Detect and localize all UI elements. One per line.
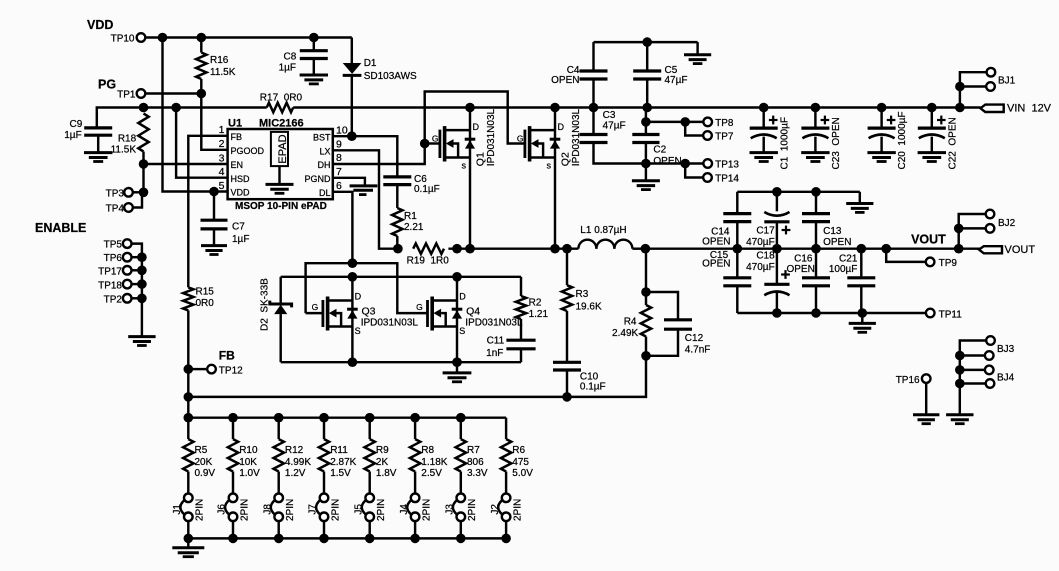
svg-text:OPEN: OPEN bbox=[823, 237, 851, 248]
svg-text:5.0V: 5.0V bbox=[512, 468, 533, 479]
junction drain line / Q4 drain bbox=[452, 272, 462, 282]
svg-text:EPAD: EPAD bbox=[277, 134, 289, 163]
svg-text:6: 6 bbox=[336, 180, 342, 192]
test point TP14 bbox=[685, 164, 739, 185]
junction bottom rail / J2 bbox=[501, 534, 511, 544]
wire to TP8 bbox=[646, 121, 704, 123]
reference label Q4 bbox=[466, 305, 480, 317]
wire Q3 source to ground line bbox=[351, 327, 353, 363]
connector J7 2PIN bbox=[308, 494, 342, 539]
value label C18 470uF bbox=[746, 250, 775, 273]
junction top rail / R11 bbox=[319, 413, 329, 423]
ground under C9 bbox=[84, 153, 112, 162]
svg-text:R6: R6 bbox=[512, 445, 525, 456]
wire EN to TP3 bbox=[142, 164, 144, 192]
junction bottom rail / J5 bbox=[365, 534, 375, 544]
wire LX from pin 9 bbox=[333, 150, 398, 248]
wire DH gate drive bbox=[333, 92, 525, 165]
junction ground line / Q3 source bbox=[348, 357, 358, 367]
value label C16 OPEN bbox=[786, 254, 814, 276]
svg-text:C9: C9 bbox=[70, 119, 83, 130]
junction VIN rail / C5 column bbox=[642, 103, 652, 113]
svg-text:2.49K: 2.49K bbox=[612, 328, 638, 339]
svg-text:C17: C17 bbox=[756, 225, 775, 236]
capacitor C7 bbox=[201, 192, 228, 246]
svg-text:475: 475 bbox=[512, 457, 529, 468]
capacitor C9 bbox=[84, 128, 112, 153]
connector BJ2 bbox=[954, 210, 1016, 249]
svg-text:2PIN: 2PIN bbox=[376, 499, 387, 521]
test point TP1 bbox=[117, 89, 145, 100]
value label R10 10K 1.0V bbox=[239, 445, 260, 479]
connector J2 2PIN bbox=[490, 494, 524, 539]
value label C22 bbox=[947, 117, 958, 169]
svg-text:IPD031N03L: IPD031N03L bbox=[465, 318, 523, 329]
svg-text:MSOP 10-PIN ePAD: MSOP 10-PIN ePAD bbox=[235, 201, 327, 212]
junction bottom rail / J3 bbox=[456, 534, 466, 544]
capacitor C5 bbox=[633, 42, 661, 107]
svg-text:Q1: Q1 bbox=[475, 152, 487, 166]
test point TP18 bbox=[98, 280, 142, 291]
connector BJ1 bbox=[955, 68, 1016, 108]
junction bottom rail / J6 bbox=[228, 534, 238, 544]
svg-text:FB: FB bbox=[219, 348, 235, 362]
node ENABLE label bbox=[35, 221, 86, 235]
wire Q1 gate stub bbox=[425, 142, 440, 144]
svg-text:R8: R8 bbox=[421, 445, 434, 456]
resistor R17 bbox=[267, 103, 294, 113]
junction bottom rail / J7 bbox=[319, 534, 329, 544]
svg-text:1µF: 1µF bbox=[64, 130, 81, 141]
capacitor C18 (polarized) bbox=[764, 249, 790, 313]
capacitor C10 bbox=[553, 362, 581, 397]
pin 5 VDD bbox=[219, 180, 250, 198]
test point TP5 bbox=[104, 239, 142, 253]
value label MIC2166 bbox=[259, 117, 304, 129]
resistor R9 bbox=[365, 418, 375, 494]
junction C10 / compensation line bbox=[562, 392, 572, 402]
wire PGND pin 7 bbox=[333, 178, 365, 186]
value label C9 1uF bbox=[64, 119, 82, 141]
svg-text:1.21: 1.21 bbox=[529, 309, 549, 320]
pin 6 DL bbox=[319, 180, 342, 198]
svg-text:2PIN: 2PIN bbox=[195, 499, 206, 521]
value label C6 0.1uF bbox=[414, 174, 440, 195]
junction top line / C17 bbox=[772, 187, 782, 197]
svg-text:L1 0.87µH: L1 0.87µH bbox=[580, 225, 626, 236]
svg-text:R12: R12 bbox=[285, 445, 304, 456]
junction LX / Q4 drain branch bbox=[452, 244, 462, 254]
value label R2 1.21 bbox=[529, 297, 549, 320]
capacitor C4 bbox=[580, 42, 608, 107]
value label Q2 IPD031N03L bbox=[571, 109, 582, 167]
svg-text:J1: J1 bbox=[172, 504, 183, 515]
svg-text:2.5V: 2.5V bbox=[421, 468, 442, 479]
junction TP3 bbox=[139, 188, 149, 198]
svg-text:OPEN: OPEN bbox=[653, 156, 681, 167]
transistor Q1 bbox=[432, 122, 480, 171]
wire FB node down bbox=[187, 369, 189, 418]
capacitor C6 bbox=[383, 177, 411, 208]
junction PG / R16 / PGOOD bbox=[197, 89, 207, 99]
svg-text:J5: J5 bbox=[353, 504, 364, 515]
ground under enable test points bbox=[128, 337, 155, 346]
junction bottom line / C16 bbox=[811, 308, 821, 318]
junction LX / R1 bbox=[393, 244, 403, 254]
svg-text:C3: C3 bbox=[603, 110, 616, 121]
value label C23 bbox=[831, 117, 842, 169]
svg-text:DH: DH bbox=[318, 160, 331, 170]
wire enable chain to ground bbox=[141, 253, 143, 337]
junction VOUT rail / C14 C15 bbox=[733, 244, 743, 254]
ground under output bank bbox=[849, 313, 876, 332]
svg-text:TP17: TP17 bbox=[98, 266, 122, 277]
svg-text:OPEN: OPEN bbox=[702, 236, 730, 247]
svg-text:BJ3: BJ3 bbox=[997, 344, 1015, 355]
value label R15 0R0 bbox=[196, 287, 215, 309]
svg-text:VOUT: VOUT bbox=[911, 232, 946, 246]
svg-text:J6: J6 bbox=[217, 504, 228, 515]
svg-text:R7: R7 bbox=[467, 445, 480, 456]
svg-text:100µF: 100µF bbox=[829, 264, 858, 275]
capacitor C20 (polarized) bbox=[867, 108, 895, 162]
junction DH / Q1 gate bbox=[420, 139, 430, 149]
junction VIN rail / BJ1 bbox=[955, 103, 965, 113]
resistor R4 bbox=[641, 292, 651, 356]
junction VIN rail / C20 bbox=[877, 103, 887, 113]
value label R4 2.49K bbox=[612, 316, 638, 339]
svg-text:LX: LX bbox=[319, 147, 330, 157]
connector BJ4 bbox=[955, 365, 1015, 388]
junction VDD pin / C7 bbox=[209, 187, 219, 197]
transistor Q2 bbox=[517, 122, 565, 171]
junction HSD rail / R18 bbox=[139, 103, 149, 113]
svg-text:2PIN: 2PIN bbox=[421, 499, 432, 521]
resistor R11 bbox=[319, 418, 329, 494]
pin 7 PGND bbox=[304, 166, 342, 184]
svg-text:47µF: 47µF bbox=[665, 75, 688, 86]
svg-text:9: 9 bbox=[336, 138, 342, 150]
svg-text:Q3: Q3 bbox=[362, 305, 376, 317]
resistor R6 bbox=[501, 418, 511, 494]
svg-text:1µF: 1µF bbox=[232, 234, 249, 245]
value label C13 OPEN bbox=[823, 226, 851, 248]
package label MSOP 10-PIN ePAD bbox=[235, 201, 327, 212]
svg-text:470µF: 470µF bbox=[746, 237, 775, 248]
value label R12 4.99K 1.2V bbox=[285, 445, 311, 479]
junction bottom line / C21 / ground bbox=[858, 308, 868, 318]
value label C12 4.7nF bbox=[685, 333, 711, 356]
resistor R12 bbox=[274, 418, 284, 494]
svg-text:1.5V: 1.5V bbox=[330, 468, 351, 479]
svg-text:BJ2: BJ2 bbox=[998, 218, 1016, 229]
resistor R10 bbox=[228, 418, 238, 494]
ground under EPAD bbox=[266, 184, 294, 193]
op-amp U1 MIC2166 body bbox=[228, 129, 333, 199]
junction TP6 bbox=[137, 252, 147, 262]
value label Q4 IPD031N03L bbox=[465, 318, 523, 329]
svg-text:TP6: TP6 bbox=[104, 253, 123, 264]
svg-text:VDD: VDD bbox=[231, 188, 251, 198]
wire low-side gate line bbox=[306, 263, 428, 313]
svg-text:G: G bbox=[517, 134, 524, 144]
ground under C2 C3 bbox=[632, 164, 660, 190]
svg-text:0R0: 0R0 bbox=[196, 298, 215, 309]
svg-text:0.1µF: 0.1µF bbox=[580, 382, 606, 393]
reference label Q3 bbox=[362, 305, 376, 317]
wire TP1 to PGOOD feed bbox=[145, 92, 201, 94]
svg-text:C13: C13 bbox=[823, 226, 842, 237]
svg-text:2PIN: 2PIN bbox=[512, 499, 523, 521]
wire EN bbox=[144, 163, 228, 165]
value label R17 0R0 bbox=[260, 92, 303, 103]
junction C2 top bbox=[641, 117, 651, 127]
test point TP4 bbox=[106, 194, 142, 215]
svg-text:C16: C16 bbox=[794, 254, 813, 265]
value label R9 2K 1.8V bbox=[376, 445, 397, 479]
svg-text:3: 3 bbox=[219, 152, 225, 164]
svg-text:ENABLE: ENABLE bbox=[35, 221, 86, 235]
test point TP17 bbox=[98, 266, 142, 277]
svg-text:R16: R16 bbox=[210, 55, 229, 66]
wire HSD rail bbox=[97, 108, 267, 129]
svg-text:D2 SK-33B: D2 SK-33B bbox=[259, 278, 270, 331]
svg-text:1µF: 1µF bbox=[279, 63, 296, 74]
connector J1 2PIN bbox=[172, 494, 206, 539]
junction top rail / R10 bbox=[228, 413, 238, 423]
ground under C8 bbox=[300, 75, 328, 84]
capacitor C8 bbox=[300, 38, 328, 76]
svg-text:3.3V: 3.3V bbox=[467, 468, 488, 479]
value label C17 470uF bbox=[746, 225, 775, 248]
wire Q4 drain to drain line bbox=[456, 277, 458, 301]
svg-text:D: D bbox=[355, 292, 362, 302]
resistor R7 bbox=[456, 418, 466, 494]
junction TP18 bbox=[137, 279, 147, 289]
value label C8 1uF bbox=[279, 52, 297, 74]
svg-text:TP3: TP3 bbox=[106, 189, 125, 200]
wire VIN rail bbox=[293, 106, 980, 108]
junction bottom rail / J8 bbox=[274, 534, 284, 544]
svg-text:470µF: 470µF bbox=[746, 262, 775, 273]
svg-text:MIC2166: MIC2166 bbox=[259, 117, 304, 129]
capacitor C12 bbox=[646, 292, 692, 356]
svg-text:BJ4: BJ4 bbox=[997, 373, 1015, 384]
svg-text:C8: C8 bbox=[284, 52, 297, 63]
terminal VOUT bbox=[979, 244, 1035, 256]
test point TP8 bbox=[703, 118, 733, 129]
junction drain line / Q3 drain bbox=[348, 272, 358, 282]
ground under BJ3 BJ4 bbox=[946, 415, 973, 424]
value label D2 SK-33B bbox=[259, 278, 270, 331]
junction TP13 TP14 bbox=[680, 159, 690, 169]
value label R8 1.18K 2.5V bbox=[421, 445, 447, 479]
diode D2 bbox=[270, 277, 292, 362]
connector J5 2PIN bbox=[353, 494, 387, 539]
svg-text:R17 0R0: R17 0R0 bbox=[260, 92, 303, 103]
svg-text:PG: PG bbox=[98, 78, 116, 92]
svg-text:D1: D1 bbox=[364, 58, 377, 69]
svg-text:1.0V: 1.0V bbox=[239, 468, 260, 479]
test point TP10 bbox=[111, 33, 146, 44]
junction VOUT rail / C13 C16 bbox=[811, 244, 821, 254]
EPAD pad of U1 bbox=[271, 132, 289, 185]
junction TP8 TP7 bbox=[680, 117, 690, 127]
node PG label bbox=[98, 78, 116, 92]
resistor R2 bbox=[516, 277, 526, 340]
junction TP2 bbox=[137, 294, 147, 304]
svg-text:TP1: TP1 bbox=[117, 90, 136, 101]
svg-text:C1 1000µF: C1 1000µF bbox=[779, 117, 790, 169]
junction top rail / R5 bbox=[184, 413, 194, 423]
junction FB / compensation line bbox=[184, 392, 194, 402]
svg-text:806: 806 bbox=[467, 457, 484, 468]
wire Q2 source to LX bbox=[554, 158, 556, 249]
svg-text:11.5K: 11.5K bbox=[210, 67, 236, 78]
svg-text:C11: C11 bbox=[487, 335, 505, 346]
wire low-side ground line bbox=[281, 361, 521, 363]
junction VOUT / L1 bbox=[641, 244, 651, 254]
svg-text:1nF: 1nF bbox=[486, 348, 503, 359]
junction BST / D1 bbox=[347, 131, 357, 141]
svg-text:1.2V: 1.2V bbox=[285, 468, 306, 479]
svg-text:4.99K: 4.99K bbox=[285, 457, 311, 468]
resistor R1 bbox=[392, 208, 402, 249]
svg-text:TP9: TP9 bbox=[939, 258, 958, 269]
junction top line / C5 bbox=[642, 37, 652, 47]
junction VDD rail / C8 bbox=[309, 33, 319, 43]
svg-text:PGND: PGND bbox=[304, 174, 331, 184]
junction LX / R3 bbox=[562, 244, 572, 254]
svg-text:C23 OPEN: C23 OPEN bbox=[831, 117, 842, 169]
junction R4 / C12 bottom bbox=[641, 351, 651, 361]
junction VOUT rail / C21 bbox=[857, 244, 867, 254]
svg-text:C21: C21 bbox=[839, 254, 858, 265]
svg-text:s: s bbox=[462, 160, 467, 170]
svg-text:47µF: 47µF bbox=[603, 121, 626, 132]
svg-text:TP11: TP11 bbox=[939, 309, 963, 320]
junction VIN rail / Q2 drain bbox=[550, 103, 560, 113]
junction TP17 bbox=[137, 266, 147, 276]
svg-text:R19 1R0: R19 1R0 bbox=[407, 255, 450, 266]
svg-text:1.8V: 1.8V bbox=[376, 468, 397, 479]
value label C11 1nF bbox=[486, 335, 504, 359]
svg-text:2PIN: 2PIN bbox=[467, 499, 478, 521]
svg-text:s: s bbox=[547, 160, 552, 170]
junction top line / C13 bbox=[811, 187, 821, 197]
value label R18 11.5K bbox=[111, 133, 137, 155]
value label C5 47uF bbox=[665, 65, 688, 86]
svg-text:IPD031N03L: IPD031N03L bbox=[571, 109, 582, 167]
value label C7 1uF bbox=[232, 222, 249, 245]
value label C2 OPEN bbox=[653, 144, 681, 167]
svg-text:IPD031N03L: IPD031N03L bbox=[486, 109, 497, 167]
svg-text:2: 2 bbox=[219, 138, 225, 150]
junction VIN rail / C22 bbox=[927, 103, 937, 113]
svg-text:R10: R10 bbox=[239, 445, 258, 456]
resistor R15 bbox=[183, 287, 193, 369]
svg-text:TP16: TP16 bbox=[896, 375, 920, 386]
value label D1 SD103AWS bbox=[364, 58, 417, 82]
node VOUT label bbox=[911, 232, 946, 246]
pin 1 FB bbox=[219, 124, 242, 142]
wire low-side drain line bbox=[281, 276, 521, 278]
wire VOUT rail bbox=[645, 247, 980, 249]
inductor L1 bbox=[578, 240, 645, 249]
value label C20 bbox=[897, 111, 908, 169]
svg-text:OPEN: OPEN bbox=[702, 259, 730, 270]
node VDD label bbox=[87, 18, 113, 32]
svg-text:D: D bbox=[473, 122, 480, 132]
junction LX / Q2 source bbox=[550, 244, 560, 254]
svg-text:R15: R15 bbox=[196, 287, 215, 298]
wire resistor bank top rail bbox=[188, 416, 506, 418]
junction top rail / R8 bbox=[410, 413, 420, 423]
svg-text:C18: C18 bbox=[756, 250, 775, 261]
pin 9 LX bbox=[319, 138, 342, 156]
svg-text:J2: J2 bbox=[490, 504, 501, 515]
junction VOUT rail / C17 C18 bbox=[772, 244, 782, 254]
svg-text:J7: J7 bbox=[308, 504, 319, 515]
connector J3 2PIN bbox=[445, 494, 479, 539]
wire Q1 source to LX bbox=[469, 158, 471, 249]
svg-text:D: D bbox=[459, 292, 466, 302]
wire resistor bank bottom rail bbox=[188, 537, 506, 539]
transistor Q4 bbox=[416, 292, 466, 336]
capacitor C14 bbox=[723, 192, 751, 249]
value label C21 100uF bbox=[829, 254, 858, 276]
pin 10 BST bbox=[313, 124, 348, 142]
capacitor C2 bbox=[632, 122, 659, 164]
wire compensation line to R4 bbox=[567, 356, 646, 397]
svg-text:DL: DL bbox=[319, 188, 331, 198]
value label R19 1R0 bbox=[407, 255, 450, 266]
junction VDD rail / R16 bbox=[197, 33, 207, 43]
wire Q3 drain to drain line bbox=[351, 277, 353, 301]
test point TP6 bbox=[104, 253, 142, 264]
junction top rail / R12 bbox=[274, 413, 284, 423]
svg-text:R3: R3 bbox=[576, 289, 589, 300]
test point TP16 bbox=[896, 374, 931, 414]
svg-text:1.18K: 1.18K bbox=[421, 457, 447, 468]
svg-text:1: 1 bbox=[219, 124, 225, 136]
test point TP11 bbox=[926, 309, 962, 321]
pin 4 HSD bbox=[219, 166, 250, 184]
ground at output bank top line bbox=[846, 192, 873, 213]
terminal VIN 12V bbox=[980, 103, 1051, 115]
svg-text:OPEN: OPEN bbox=[551, 75, 579, 86]
pin 2 PGOOD bbox=[219, 138, 265, 156]
junction DL / gate line bbox=[348, 258, 358, 268]
wire Q1 drain to VIN rail bbox=[469, 108, 471, 131]
junction VIN rail / C3 bbox=[589, 103, 599, 113]
value label C1 bbox=[779, 117, 790, 169]
junction LX / Q1 source bbox=[465, 244, 475, 254]
svg-text:IPD031N03L: IPD031N03L bbox=[361, 318, 419, 329]
svg-text:R5: R5 bbox=[195, 445, 208, 456]
wire Q4 source to ground line bbox=[456, 327, 458, 363]
connector BJ3 bbox=[955, 336, 1015, 414]
svg-text:FB: FB bbox=[231, 132, 243, 142]
resistor R5 bbox=[183, 418, 193, 494]
ground under C7 bbox=[201, 246, 227, 255]
wire R4 top bbox=[645, 249, 647, 292]
junction VIN rail / Q1 drain bbox=[465, 103, 475, 113]
svg-text:TP12: TP12 bbox=[219, 365, 243, 376]
svg-text:J3: J3 bbox=[445, 504, 456, 515]
pin 3 EN bbox=[219, 152, 243, 170]
resistor R8 bbox=[410, 418, 420, 494]
